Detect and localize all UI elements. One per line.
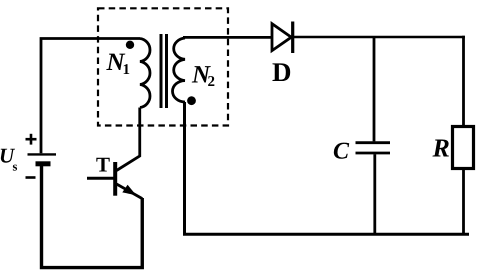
- transistor T emitter: [117, 184, 143, 199]
- wire secondary bottom (N2 lead down and bottom rail): [183, 102, 469, 234]
- capacitor C bottom plate: [356, 152, 391, 155]
- label minus: [26, 176, 36, 179]
- label +: [26, 134, 37, 145]
- wire bottom-left loop (battery minus to emitter): [42, 164, 143, 268]
- svg-text:T: T: [96, 153, 110, 177]
- resistor R: [453, 127, 474, 169]
- transformer core: [161, 34, 167, 108]
- polarity dot N2: [187, 96, 196, 105]
- svg-text:C: C: [333, 139, 350, 165]
- svg-text:R: R: [432, 133, 450, 162]
- svg-text:s: s: [13, 160, 18, 174]
- wire right rail bottom: [462, 169, 465, 235]
- transformer dashed box: [98, 8, 228, 125]
- transistor T emitter arrow: [122, 185, 136, 196]
- svg-text:2: 2: [208, 74, 216, 90]
- wire top-left from source to primary winding: [41, 39, 140, 154]
- wire right rail top: [462, 36, 465, 127]
- diode D triangle: [272, 24, 291, 51]
- svg-text:1: 1: [123, 62, 131, 78]
- transformer secondary winding N2: [172, 38, 185, 102]
- wire capacitor bottom lead: [373, 154, 376, 234]
- svg-text:D: D: [272, 57, 292, 87]
- wire secondary top to diode anode: [183, 36, 272, 39]
- transformer primary winding N1: [140, 39, 150, 108]
- capacitor C top plate: [356, 141, 391, 144]
- battery source Us plus plate: [28, 153, 57, 155]
- transistor T base bar: [113, 162, 117, 196]
- diode D cathode bar: [291, 22, 294, 54]
- wire diode cathode to top-right corner: [293, 36, 465, 39]
- polarity dot N1: [126, 41, 134, 49]
- transistor T base wire: [87, 177, 115, 180]
- transistor T collector: [117, 108, 140, 171]
- battery source Us minus plate: [36, 161, 51, 166]
- wire capacitor top lead: [373, 37, 376, 141]
